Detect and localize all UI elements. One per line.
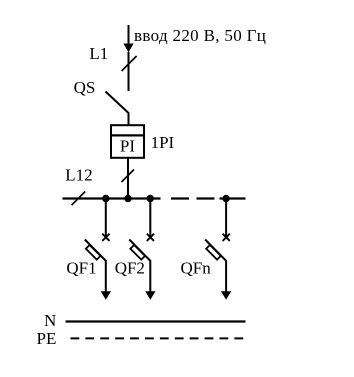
svg-text:QF2: QF2: [115, 258, 145, 277]
svg-text:ввод 220 В, 50 Гц: ввод 220 В, 50 Гц: [134, 26, 266, 45]
svg-text:PI: PI: [120, 136, 135, 155]
svg-text:N: N: [44, 311, 56, 330]
svg-text:PE: PE: [37, 329, 57, 348]
svg-text:QFn: QFn: [181, 258, 212, 277]
svg-text:QS: QS: [74, 78, 96, 97]
svg-text:1PI: 1PI: [151, 133, 175, 152]
svg-text:L12: L12: [65, 166, 92, 185]
svg-text:L1: L1: [89, 44, 108, 63]
svg-text:QF1: QF1: [66, 258, 96, 277]
